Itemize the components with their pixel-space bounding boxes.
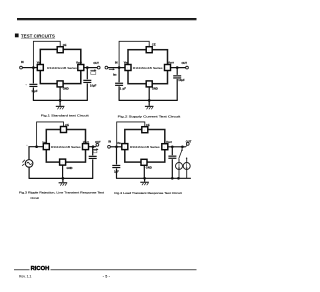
wire ground stub (144, 178, 146, 181)
svg-text:CE: CE (152, 42, 156, 46)
pin VIN box (122, 144, 128, 150)
op-amp U2 body R1111Nxx1B (128, 50, 168, 84)
wire GND stub (62, 165, 64, 179)
wire GND stub (59, 87, 61, 101)
ground (59, 182, 68, 186)
current arrow ISS (109, 68, 115, 70)
pin VOUT box (165, 65, 171, 71)
junction input node (115, 145, 118, 148)
wire output (168, 146, 186, 148)
pin VOUT box (78, 65, 84, 71)
svg-text:IN: IN (108, 140, 111, 144)
pin GND box (146, 81, 152, 87)
pin VIN box (125, 65, 131, 71)
header rule (17, 18, 197, 20)
op-amp U1 body R1111Nxx1B (40, 49, 81, 83)
svg-text:1µF: 1µF (114, 169, 119, 173)
wire bottom rail (116, 177, 191, 179)
wire CIN branch (116, 147, 118, 165)
pin GND box (57, 81, 63, 87)
pin VIN box (37, 65, 43, 71)
junction input node (32, 66, 35, 69)
svg-text:RICOH: RICOH (31, 266, 50, 272)
current source IL1 (178, 159, 180, 162)
junction rail node 1 (143, 177, 146, 180)
current source IL2 (186, 159, 188, 163)
pin GND box (60, 159, 66, 165)
pin CE box (142, 127, 148, 133)
op-amp U3 body R1111Nxx1B (46, 130, 85, 163)
capacitor CIN 1uF (29, 84, 37, 86)
capacitor COUT 10uF (173, 76, 181, 78)
wire output (170, 67, 186, 69)
wire COUT branch (86, 68, 88, 80)
wire CE thin (117, 122, 145, 147)
wire bottom rail (29, 177, 94, 179)
pin CE box (61, 127, 67, 133)
svg-text:10µF: 10µF (178, 78, 185, 82)
junction ground node (148, 99, 151, 102)
ground (56, 106, 65, 110)
svg-text:R1111Nxx1B Series: R1111Nxx1B Series (51, 145, 81, 149)
junction input node (118, 66, 121, 69)
terminal OUT (97, 66, 100, 69)
wire output (83, 67, 97, 69)
svg-text:Fig.2 Supply Current Test Circ: Fig.2 Supply Current Test Circuit (118, 114, 181, 118)
svg-text:OUT: OUT (95, 140, 101, 144)
capacitor COUT 10uF (89, 156, 97, 158)
svg-text:10µF: 10µF (90, 83, 97, 87)
svg-text:IN: IN (21, 60, 24, 64)
wire source to rail (28, 167, 30, 178)
svg-text:CE: CE (65, 123, 69, 127)
svg-text:GND: GND (152, 86, 158, 90)
ground (145, 106, 154, 110)
pin VOUT box (83, 144, 89, 150)
junction output node A (171, 145, 174, 148)
current arrow IOUT (92, 148, 98, 150)
terminal OUT (186, 145, 187, 147)
svg-text:Fig.4 Load Transient Response: Fig.4 Load Transient Response Test Circu… (114, 191, 182, 195)
pin VIN box (43, 144, 49, 150)
wire COUT branch (92, 147, 94, 156)
wire input (110, 146, 123, 148)
capacitor COUT 10uF (83, 80, 91, 82)
switch SW1 (181, 147, 183, 150)
label source ticks (22, 160, 25, 163)
terminal VIN (20, 66, 23, 69)
junction ground node (59, 99, 62, 102)
terminal OUT (96, 146, 97, 147)
wire ground stub (148, 100, 150, 105)
junction rail node 2 (171, 177, 174, 180)
svg-text:CE: CE (146, 123, 150, 127)
svg-text:Fig.1 Standard test Circuit: Fig.1 Standard test Circuit (41, 114, 89, 118)
capacitor CL 10uF (168, 156, 176, 158)
junction input node (35, 145, 38, 148)
terminal VIN (105, 66, 108, 69)
wire COUT branch (176, 68, 178, 75)
svg-text:IN: IN (115, 61, 118, 65)
wire input (22, 67, 38, 69)
wire GND stub (143, 165, 145, 178)
svg-text:Circuit: Circuit (30, 196, 39, 200)
wire input (108, 67, 126, 69)
svg-text:Fig.3 Ripple Rejection, Line T: Fig.3 Ripple Rejection, Line Transient R… (19, 191, 104, 195)
footer rule (14, 268, 30, 271)
svg-text:TEST CIRCUITS: TEST CIRCUITS (21, 33, 55, 38)
junction output node (92, 145, 95, 148)
svg-text:CE: CE (63, 43, 67, 47)
junction ground node (62, 177, 65, 180)
capacitor CIN 1uF (115, 83, 123, 85)
svg-text:OUT: OUT (186, 139, 192, 143)
wire CIN branch (32, 68, 34, 84)
junction output node (176, 66, 179, 69)
current arrow IOUT (90, 69, 96, 71)
svg-text:GND: GND (63, 86, 69, 90)
wire output (88, 146, 96, 148)
svg-text:1 µF: 1 µF (31, 89, 37, 93)
wire ground stub (62, 178, 64, 182)
svg-text:Rev. 1.1: Rev. 1.1 (19, 275, 31, 279)
wire COUT branch (171, 147, 173, 155)
junction rail node 3 (177, 177, 180, 180)
wire ground stub (59, 100, 61, 105)
terminal VIN (108, 145, 111, 148)
svg-text:GND: GND (67, 166, 73, 170)
svg-text:R1111Nxx1B Series: R1111Nxx1B Series (47, 66, 77, 70)
AC source V1 (25, 160, 33, 168)
junction output node B (181, 145, 184, 148)
pin VOUT box (162, 144, 168, 150)
pin CE box (146, 47, 152, 53)
svg-text:1 µF: 1 µF (120, 87, 126, 91)
svg-text:R1111Nxx1B Series: R1111Nxx1B Series (130, 145, 160, 149)
svg-text:OUT: OUT (93, 61, 99, 65)
section heading TEST CIRCUITS (15, 34, 19, 38)
wire CE thin (37, 122, 64, 147)
svg-text:OUT: OUT (182, 61, 188, 65)
wire CE thin (119, 41, 149, 67)
svg-text:GND: GND (146, 166, 152, 170)
svg-text:- 5 -: - 5 - (103, 274, 110, 278)
wire input (29, 147, 44, 160)
wire GND stub (148, 87, 150, 101)
junction output node (86, 66, 89, 69)
wire bottom rail (119, 99, 178, 101)
pin GND box (141, 159, 147, 165)
terminal OUT (186, 66, 189, 69)
wire CE thin (33, 41, 60, 67)
wire CIN branch (118, 68, 120, 83)
svg-text:R1111Nxx1B Series: R1111Nxx1B Series (133, 66, 163, 70)
wire bottom rail (33, 99, 88, 101)
op-amp U4 body R1111Nxx1B (125, 130, 165, 163)
capacitor CIN 1uF (112, 165, 120, 167)
pin CE box (57, 47, 63, 53)
ground (140, 182, 149, 186)
